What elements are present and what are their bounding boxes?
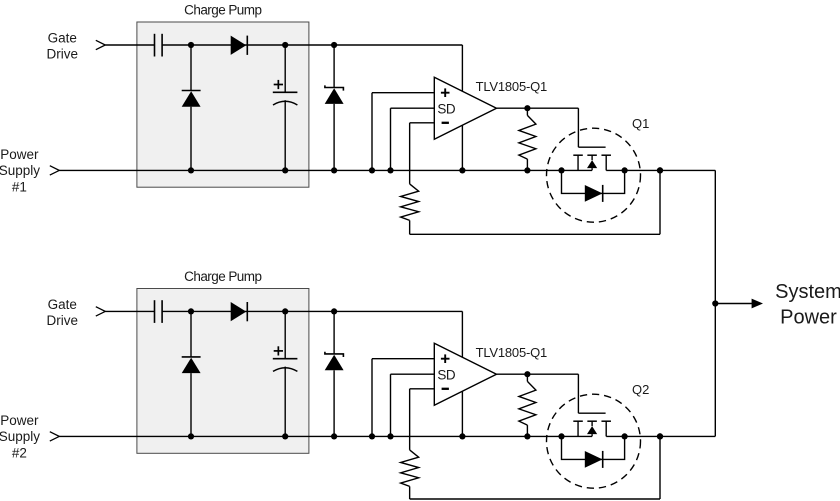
- svg-text:Gate: Gate: [48, 297, 77, 312]
- svg-text:Power: Power: [0, 147, 39, 162]
- svg-text:Power: Power: [780, 307, 837, 329]
- svg-text:System: System: [775, 281, 840, 303]
- svg-text:Supply: Supply: [0, 163, 40, 178]
- svg-text:Supply: Supply: [0, 429, 40, 444]
- svg-text:Q1: Q1: [632, 116, 649, 131]
- svg-text:Drive: Drive: [47, 313, 79, 328]
- svg-text:SD: SD: [437, 367, 456, 382]
- svg-text:TLV1805-Q1: TLV1805-Q1: [476, 79, 547, 94]
- svg-text:#1: #1: [12, 179, 27, 194]
- svg-text:Q2: Q2: [632, 382, 649, 397]
- svg-text:Drive: Drive: [47, 47, 79, 62]
- svg-text:SD: SD: [437, 101, 456, 116]
- svg-text:Gate: Gate: [48, 31, 77, 46]
- svg-text:TLV1805-Q1: TLV1805-Q1: [476, 345, 547, 360]
- svg-text:Charge Pump: Charge Pump: [184, 3, 261, 18]
- svg-text:Power: Power: [0, 413, 39, 428]
- svg-text:#2: #2: [12, 445, 27, 460]
- svg-text:Charge Pump: Charge Pump: [184, 269, 261, 284]
